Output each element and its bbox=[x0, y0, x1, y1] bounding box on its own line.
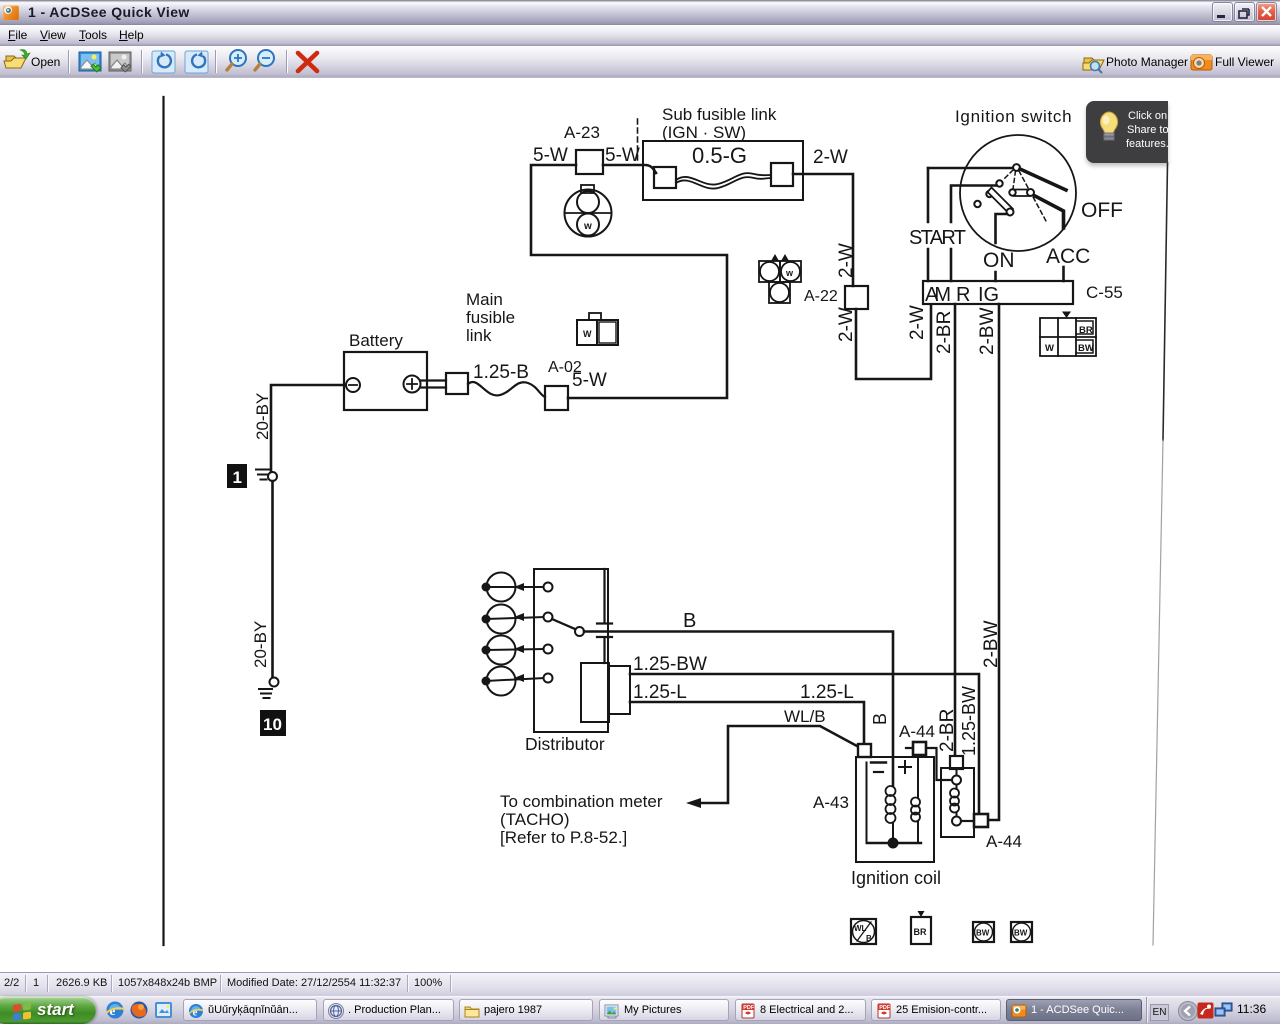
fuse A-23 label bbox=[564, 123, 600, 142]
spark plug 1 bbox=[482, 573, 545, 602]
connector A-44 bottom bbox=[974, 814, 988, 827]
wire label B bbox=[683, 610, 696, 632]
svg-text:Ignition coil: Ignition coil bbox=[851, 868, 941, 888]
toolbar bbox=[0, 46, 1280, 78]
coil plus sign bbox=[899, 761, 911, 773]
ignition switch circle bbox=[960, 135, 1076, 251]
distributor cap terminal 1 bbox=[544, 583, 553, 592]
svg-text:w: w bbox=[583, 221, 592, 232]
svg-text:Sub fusible link: Sub fusible link bbox=[662, 105, 777, 124]
svg-text:1: 1 bbox=[233, 468, 242, 487]
spark plug 2 bbox=[482, 605, 545, 634]
wire label 5-W at A-02 bbox=[572, 370, 607, 391]
fuse A-23 box bbox=[576, 150, 603, 174]
svg-text:2-BR: 2-BR bbox=[934, 311, 955, 354]
svg-text:A-44: A-44 bbox=[899, 722, 935, 741]
to combination meter note bbox=[500, 792, 663, 847]
wire B rotor to coil bbox=[584, 632, 893, 787]
svg-text:B: B bbox=[683, 610, 696, 632]
zoom out icon bbox=[255, 50, 274, 70]
wire ACC pin bbox=[1062, 267, 1065, 281]
wire 1.25-L distributor to coil negative bbox=[630, 702, 864, 744]
full viewer icon bbox=[1191, 55, 1212, 70]
svg-text:1.25-B: 1.25-B bbox=[473, 362, 529, 383]
ballast terminals and coil bbox=[950, 769, 961, 826]
quick launch icons bbox=[104, 1000, 194, 1024]
switch contact R3 bbox=[974, 201, 980, 207]
distributor rotor arm bbox=[552, 619, 584, 636]
wire label 20-BY lower bbox=[251, 621, 270, 668]
wire ON pin bbox=[996, 214, 1008, 281]
switch contact START bbox=[996, 180, 1002, 186]
wire label 2-BW lower bbox=[981, 620, 1002, 668]
switch apex contact bbox=[1013, 164, 1020, 171]
wire label 1.25-BW vertical bbox=[959, 686, 979, 756]
wire A-23 to sub fusible link bbox=[603, 165, 656, 173]
svg-text:2-BR: 2-BR bbox=[937, 709, 958, 752]
svg-text:1.25-L: 1.25-L bbox=[633, 682, 687, 703]
A-22 connector face symbol bbox=[759, 254, 801, 303]
wire R contact to C-55 bbox=[951, 186, 997, 282]
svg-text:Main: Main bbox=[466, 290, 503, 309]
rotor gap lower electrode bbox=[597, 637, 612, 663]
C-55 connector face symbol bbox=[1040, 312, 1096, 357]
svg-text:2-W: 2-W bbox=[907, 305, 928, 340]
svg-text:A-23: A-23 bbox=[564, 123, 600, 142]
wire WL/B to tacho arrow bbox=[686, 726, 857, 808]
switch rotor bar bbox=[988, 188, 1014, 214]
wire label 1.25-B bbox=[473, 362, 529, 383]
svg-text:10: 10 bbox=[263, 715, 282, 734]
svg-text:0.5-G: 0.5-G bbox=[692, 143, 747, 168]
svg-text:ACC: ACC bbox=[1046, 245, 1090, 268]
svg-text:W: W bbox=[583, 329, 592, 339]
svg-text:5-W: 5-W bbox=[572, 370, 607, 391]
svg-text:2-W: 2-W bbox=[836, 307, 857, 342]
svg-text:W: W bbox=[1045, 343, 1054, 354]
svg-text:2-W: 2-W bbox=[813, 147, 848, 168]
A-22 face W mark bbox=[785, 268, 794, 278]
scan page right border bbox=[1153, 163, 1168, 945]
connector A-44 top bbox=[913, 742, 926, 755]
connector C-55 box bbox=[923, 281, 1073, 304]
wire sub link to 2-W corner bbox=[793, 174, 853, 286]
coil primary winding bbox=[886, 786, 896, 843]
svg-text:A-43: A-43 bbox=[813, 793, 849, 812]
svg-text:Battery: Battery bbox=[349, 331, 403, 350]
svg-text:BW: BW bbox=[976, 929, 990, 938]
wire label 1.25-L mid bbox=[800, 682, 854, 703]
sub fusible link box bbox=[643, 141, 803, 200]
task buttons bbox=[183, 999, 317, 1021]
main fusible link label bbox=[466, 290, 515, 345]
svg-text:PDF: PDF bbox=[879, 1005, 891, 1011]
wire label 1.25-BW at distributor bbox=[633, 654, 707, 675]
START label bbox=[909, 227, 966, 249]
wire label 2-BR lower bbox=[937, 709, 958, 752]
wire label 2-W horizontal bbox=[813, 147, 848, 168]
connector label A-22 bbox=[804, 288, 838, 305]
svg-text:2-W: 2-W bbox=[836, 243, 857, 278]
wire top feed to switch apex bbox=[928, 167, 1013, 170]
pickup connector box bbox=[609, 666, 630, 714]
A-44 top label bbox=[899, 722, 935, 741]
distributor cap terminal 3 bbox=[544, 645, 553, 654]
svg-text:20-BY: 20-BY bbox=[251, 621, 270, 668]
sub link right connector bbox=[771, 163, 793, 186]
ground 1 numbered box bbox=[227, 464, 247, 488]
pickup coil box bbox=[581, 663, 609, 722]
distributor center electrode bbox=[597, 569, 612, 624]
svg-text:To combination meter: To combination meter bbox=[500, 792, 663, 811]
svg-text:link: link bbox=[466, 326, 492, 345]
svg-text:WL/B: WL/B bbox=[784, 707, 826, 726]
ground 10 numbered box bbox=[260, 710, 286, 736]
wire A-02 to A-23 loop bbox=[531, 165, 727, 398]
BW splice symbol 2 bbox=[1011, 922, 1032, 942]
distributor label bbox=[525, 734, 605, 754]
connector A-02 bbox=[545, 386, 568, 410]
wire label 2-BR upper bbox=[934, 311, 955, 354]
dashed separator line bbox=[637, 119, 639, 162]
wire label 2-W vertical upper bbox=[836, 243, 857, 278]
BW splice 1 text bbox=[976, 929, 990, 938]
svg-text:Ignition switch: Ignition switch bbox=[955, 107, 1072, 126]
svg-text:w: w bbox=[785, 268, 794, 278]
svg-text:(IGN · SW): (IGN · SW) bbox=[662, 123, 746, 142]
distributor cap terminal 2 bbox=[544, 613, 553, 622]
svg-text:5-W: 5-W bbox=[533, 145, 568, 166]
zoom in icon bbox=[227, 50, 246, 70]
svg-text:ON: ON bbox=[983, 249, 1015, 272]
BR connector text bbox=[914, 927, 927, 937]
wire battery positive double lead bbox=[421, 381, 446, 388]
wire label 2-W vertical mid bbox=[836, 307, 857, 342]
tray bbox=[1146, 997, 1148, 1023]
spark plug 3 bbox=[482, 636, 545, 665]
wire label 0.5-G bbox=[692, 143, 747, 168]
svg-text:WL: WL bbox=[854, 924, 867, 933]
fuse symbol circle below A-23 bbox=[565, 185, 612, 237]
BW splice 2 text bbox=[1014, 929, 1028, 938]
sub link left connector bbox=[654, 167, 676, 188]
ground node 1 bbox=[256, 470, 277, 482]
tooltip balloon bbox=[1086, 101, 1168, 163]
svg-text:5-W: 5-W bbox=[605, 145, 640, 166]
coil minus sign bbox=[874, 771, 883, 773]
svg-text:R: R bbox=[956, 284, 970, 306]
wire ground 1 to ground 10 bbox=[271, 481, 274, 677]
wire label 1.25-L at distributor bbox=[633, 682, 687, 703]
wire label 2-BW upper bbox=[977, 307, 998, 355]
svg-text:(TACHO): (TACHO) bbox=[500, 810, 570, 829]
svg-text:AM: AM bbox=[925, 284, 951, 306]
coil secondary winding bbox=[911, 755, 920, 843]
svg-text:fusible: fusible bbox=[466, 308, 515, 327]
wire label 20-BY upper bbox=[253, 393, 272, 440]
A-02 connector face symbol bbox=[577, 313, 618, 345]
svg-text:B: B bbox=[866, 934, 872, 943]
svg-text:A-22: A-22 bbox=[804, 288, 838, 305]
svg-text:[Refer to P.8-52.]: [Refer to P.8-52.] bbox=[500, 828, 627, 847]
coil common junction dot bbox=[867, 838, 921, 849]
window title bar bbox=[0, 0, 1280, 25]
BR connector symbol bbox=[911, 911, 931, 944]
battery label bbox=[349, 331, 403, 350]
svg-text:1.25-L: 1.25-L bbox=[800, 682, 854, 703]
svg-text:C-55: C-55 bbox=[1086, 283, 1123, 302]
ignition coil label bbox=[851, 868, 941, 888]
svg-text:1.25-BW: 1.25-BW bbox=[959, 686, 979, 756]
svg-text:START: START bbox=[909, 227, 966, 249]
switch contact R2 bbox=[986, 191, 992, 197]
svg-text:PDF: PDF bbox=[743, 1005, 755, 1011]
wire label 2-W vertical at AM bbox=[907, 305, 928, 340]
svg-text:B: B bbox=[870, 713, 890, 725]
A-44 bottom label bbox=[986, 832, 1022, 851]
spark plug 4 bbox=[482, 667, 545, 696]
wire ballast to A-44 bottom bbox=[961, 820, 974, 822]
svg-text:Distributor: Distributor bbox=[525, 734, 605, 754]
OFF label bbox=[1081, 199, 1123, 222]
coil negative terminal connector bbox=[858, 744, 871, 757]
open folder icon bbox=[4, 50, 30, 69]
WL/B splice text bbox=[854, 924, 872, 943]
ACC label bbox=[1046, 245, 1090, 268]
wire label WL/B bbox=[784, 707, 826, 726]
sub fusible link labels bbox=[662, 105, 777, 142]
wire 2-BW from C-55 IG pin bbox=[988, 304, 999, 820]
wire 1.25-B squiggle bbox=[468, 382, 545, 397]
image next icon bbox=[109, 52, 131, 72]
wire START to C-55 bbox=[927, 168, 930, 281]
switch dashed rays bbox=[1003, 170, 1046, 221]
photo manager icon bbox=[1083, 58, 1104, 73]
wire A-44 top to ballast bbox=[906, 748, 951, 780]
menu bar bbox=[0, 25, 1280, 46]
C-55 pin labels AM R IG bbox=[925, 284, 999, 306]
svg-text:20-BY: 20-BY bbox=[253, 393, 272, 440]
wire 2-BR from C-55 R pin bbox=[954, 304, 957, 756]
wire 1.25-BW distributor to A-44 bbox=[630, 674, 979, 813]
ignition switch label bbox=[955, 107, 1072, 126]
wire label 5-W right of A-23 bbox=[605, 145, 640, 166]
svg-text:2-BW: 2-BW bbox=[977, 307, 998, 355]
svg-text:A-44: A-44 bbox=[986, 832, 1022, 851]
ballast top connector bbox=[950, 756, 963, 769]
connector label A-43 bbox=[813, 793, 849, 812]
wire A-22 down to AM pin bbox=[856, 305, 931, 379]
wire battery negative to ground node 1 bbox=[271, 385, 344, 471]
distributor box bbox=[534, 569, 608, 732]
main fusible link connector bbox=[446, 373, 468, 394]
ignition coil box bbox=[856, 757, 934, 862]
wire label 5-W left of A-23 bbox=[533, 145, 568, 166]
svg-text:BW: BW bbox=[1014, 929, 1028, 938]
switch rotor end contact bbox=[1007, 209, 1014, 216]
battery bbox=[344, 352, 427, 410]
status bar bbox=[0, 972, 1280, 996]
rotate ccw icon bbox=[152, 51, 175, 73]
rotate cw icon bbox=[185, 51, 208, 73]
svg-text:e: e bbox=[193, 1007, 198, 1019]
ballast resistor box bbox=[941, 768, 974, 837]
WL/B splice symbol bbox=[851, 919, 876, 944]
svg-text:BW: BW bbox=[1078, 343, 1094, 354]
A-02 face W pin label bbox=[583, 329, 592, 339]
connector label A-02 bbox=[548, 359, 582, 376]
svg-text:BR: BR bbox=[914, 927, 927, 937]
sub link wavy wire bbox=[676, 173, 771, 189]
switch capsule contact bbox=[1009, 189, 1034, 196]
switch blade to OFF bbox=[1020, 169, 1066, 190]
wire label B vertical bbox=[870, 713, 890, 725]
svg-text:IG: IG bbox=[978, 284, 999, 306]
ground node 10 bbox=[259, 678, 279, 699]
BW splice symbol 1 bbox=[973, 922, 994, 942]
switch blade to ACC bbox=[1035, 196, 1064, 228]
svg-text:2-BW: 2-BW bbox=[981, 620, 1002, 668]
C-55 face pin labels bbox=[1045, 325, 1094, 354]
C-55 label bbox=[1086, 283, 1123, 302]
coil negative bar and lead bbox=[867, 763, 887, 844]
ON label bbox=[983, 249, 1015, 272]
scan page left border bbox=[162, 97, 164, 945]
svg-text:OFF: OFF bbox=[1081, 199, 1123, 222]
red delete X bbox=[298, 53, 317, 71]
distributor cap terminal 4 bbox=[544, 674, 553, 683]
image prev icon bbox=[79, 52, 101, 72]
taskbar bbox=[0, 996, 1280, 1024]
connector A-22 bbox=[845, 286, 868, 309]
svg-text:BR: BR bbox=[1079, 325, 1093, 336]
fuse circle W mark bbox=[583, 221, 592, 232]
svg-text:1.25-BW: 1.25-BW bbox=[633, 654, 707, 675]
